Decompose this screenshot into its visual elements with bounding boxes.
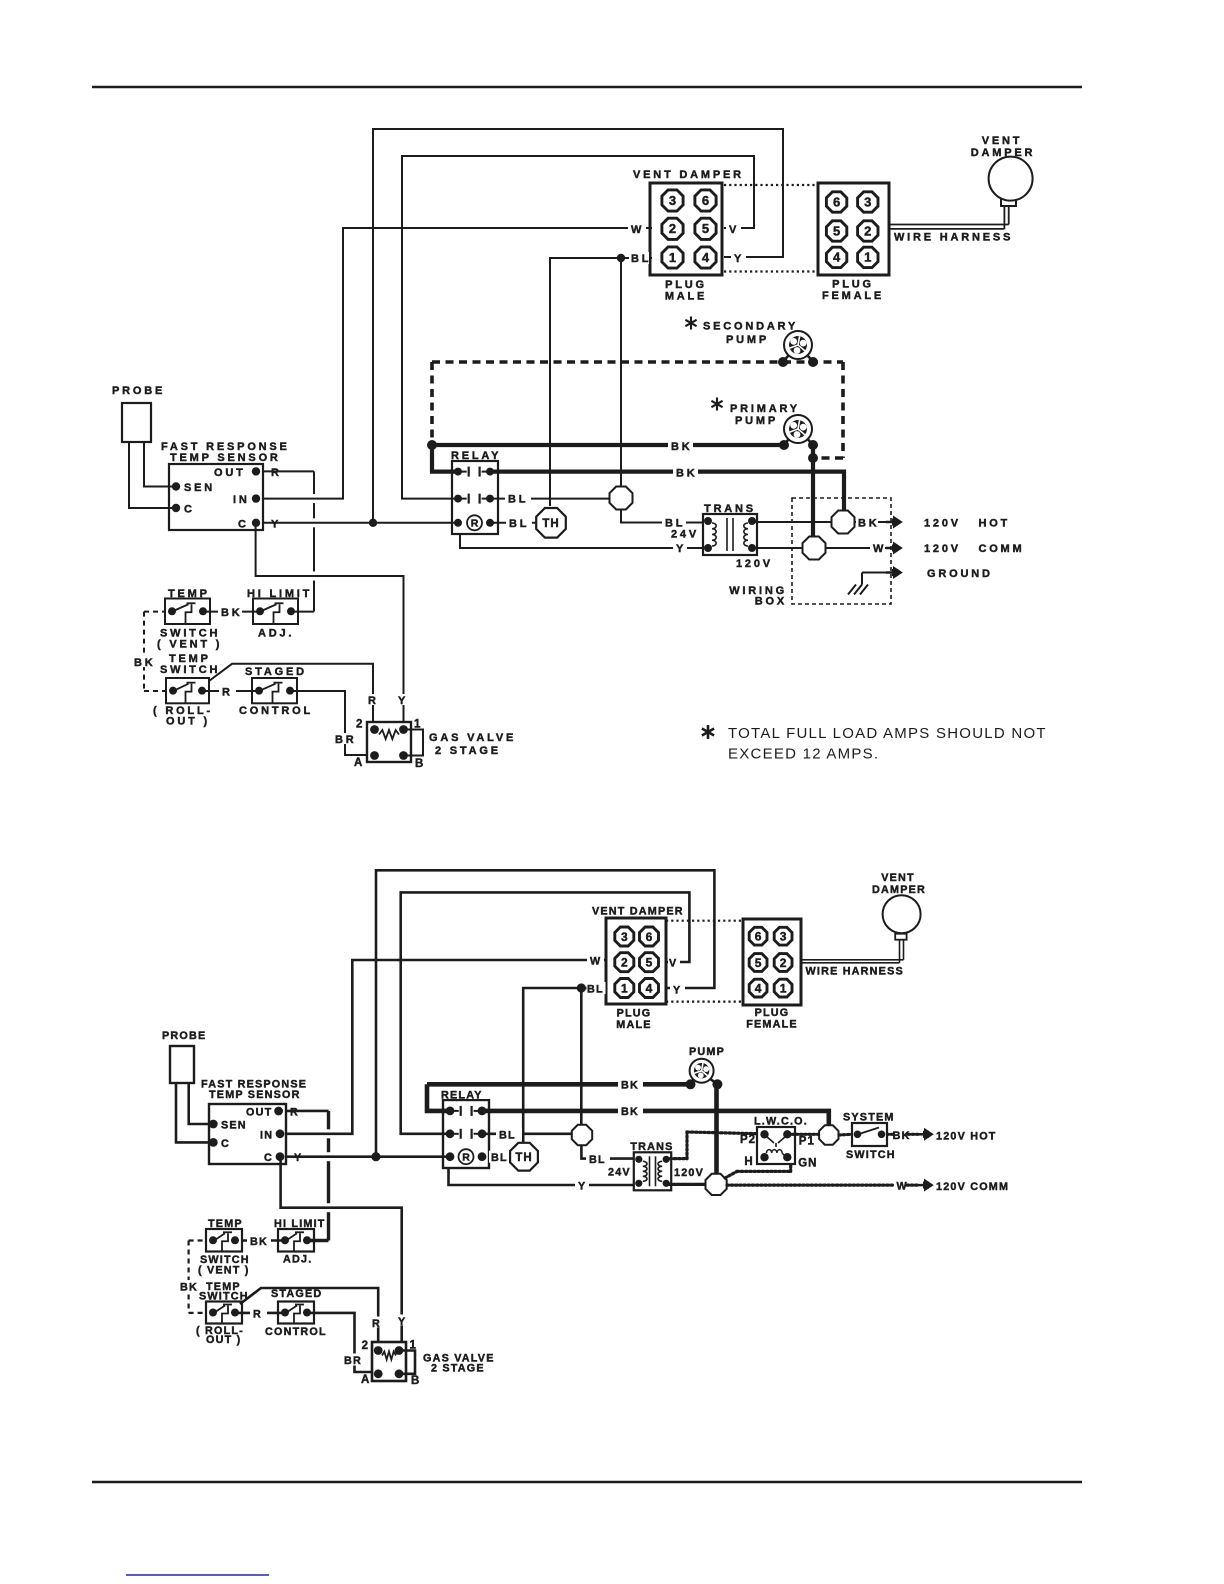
junction dot Y bbox=[369, 519, 377, 527]
wire Y sensor C down to gas valve pin1 bbox=[256, 523, 404, 728]
svg-text:ADJ.: ADJ. bbox=[283, 1254, 312, 1266]
wire W from plug pin2 to sensor IN bbox=[263, 228, 652, 499]
wire BK thick relay row1 to wiring box bbox=[490, 472, 844, 510]
svg-text:C: C bbox=[184, 504, 195, 516]
svg-text:3: 3 bbox=[669, 193, 676, 208]
svg-text:Y: Y bbox=[578, 1181, 586, 1193]
svg-text:CONTROL: CONTROL bbox=[239, 705, 313, 717]
svg-text:RELAY: RELAY bbox=[451, 450, 501, 462]
svg-text:PLUG: PLUG bbox=[832, 279, 874, 291]
svg-text:SECONDARY: SECONDARY bbox=[703, 321, 798, 333]
probe wires bbox=[129, 442, 172, 508]
svg-text:R: R bbox=[290, 1107, 299, 1119]
L plug female pin 5 bbox=[749, 954, 767, 972]
svg-text:120V COMM: 120V COMM bbox=[924, 543, 1025, 555]
wire relay bottom Y to transformer 24V bbox=[460, 533, 703, 548]
svg-text:DAMPER: DAMPER bbox=[971, 147, 1035, 159]
svg-text:MALE: MALE bbox=[665, 291, 707, 303]
L label BL at trans bbox=[586, 1153, 610, 1165]
L label RELAY bbox=[440, 1089, 492, 1100]
svg-text:C: C bbox=[264, 1152, 273, 1164]
svg-text:5: 5 bbox=[833, 223, 840, 238]
label WIRING BOX bbox=[737, 584, 789, 595]
svg-text:B: B bbox=[411, 1375, 420, 1387]
wire nut BK bbox=[832, 511, 855, 534]
wire net-A top loop (plug Y to sensor C/relay Y junction) bbox=[373, 129, 783, 523]
svg-text:PUMP: PUMP bbox=[726, 334, 769, 346]
L field wire 120V COMM bbox=[727, 1183, 895, 1186]
label RELAY bbox=[450, 449, 502, 459]
junction dot BK bbox=[427, 440, 437, 450]
wire R from sensor OUT to HI LIMIT (with hops) bbox=[263, 470, 314, 472]
svg-text:R: R bbox=[462, 1152, 470, 1164]
svg-text:L.W.C.O.: L.W.C.O. bbox=[754, 1116, 808, 1128]
L relay contact row1 bbox=[446, 1107, 455, 1116]
plug female pin 3 bbox=[858, 192, 878, 212]
svg-text:VENT DAMPER: VENT DAMPER bbox=[592, 906, 684, 918]
L wire staged to gas valve A bbox=[310, 1313, 375, 1372]
L hi limit switch bbox=[278, 1229, 314, 1252]
wire ground lead-out bbox=[862, 572, 886, 574]
system switch pins and blade bbox=[854, 1131, 862, 1139]
L wire net-A top loop plug Y bbox=[376, 870, 714, 1156]
svg-text:W: W bbox=[897, 1181, 908, 1193]
relay contact row 1 bbox=[454, 468, 462, 476]
svg-text:W: W bbox=[590, 956, 601, 968]
svg-text:P2: P2 bbox=[740, 1134, 756, 1146]
L plug male pin 6 bbox=[640, 927, 659, 946]
wire R roll-out to staged control bbox=[204, 690, 260, 692]
svg-text:EXCEED 12 AMPS.: EXCEED 12 AMPS. bbox=[728, 746, 879, 763]
label BK wire2 bbox=[673, 466, 698, 478]
L wire nut LWCO bbox=[819, 1125, 838, 1144]
svg-text:VENT: VENT bbox=[982, 135, 1023, 147]
svg-text:H: H bbox=[744, 1156, 753, 1168]
wire harness double line bbox=[889, 224, 1009, 226]
svg-text:2: 2 bbox=[669, 221, 676, 236]
svg-text:4: 4 bbox=[833, 250, 841, 265]
L sensor box bbox=[209, 1104, 286, 1164]
svg-text:120V: 120V bbox=[674, 1167, 704, 1179]
svg-text:120V HOT: 120V HOT bbox=[924, 518, 1010, 530]
wire BL wire-nut to transformer 24V bbox=[621, 510, 703, 523]
plug female pin 2 bbox=[858, 221, 878, 241]
fast response temp sensor box bbox=[169, 464, 263, 530]
svg-text:IN: IN bbox=[233, 494, 250, 506]
svg-text:4: 4 bbox=[755, 981, 762, 995]
svg-text:BK: BK bbox=[134, 657, 156, 669]
L probe wires bbox=[176, 1083, 209, 1142]
label BL row2 bbox=[505, 492, 531, 504]
wire BK vent switch to hi limit bbox=[204, 611, 259, 613]
sensor pin C bottom bbox=[252, 519, 260, 527]
asterisk primary bbox=[716, 398, 718, 411]
arrow 120V HOT bbox=[886, 521, 894, 524]
svg-text:PLUG: PLUG bbox=[755, 1007, 790, 1019]
svg-text:BR: BR bbox=[344, 1355, 362, 1367]
L temp switch (roll-out) bbox=[206, 1302, 242, 1324]
relay contact row 2 bbox=[454, 495, 462, 503]
dashed wire to temp switch vent bbox=[144, 611, 166, 613]
svg-text:VENT DAMPER: VENT DAMPER bbox=[633, 169, 744, 181]
svg-text:BK: BK bbox=[621, 1080, 639, 1092]
L label BK dashed bbox=[178, 1280, 201, 1291]
svg-text:Y: Y bbox=[734, 253, 744, 265]
svg-text:SWITCH: SWITCH bbox=[846, 1149, 896, 1161]
L arrow HOT bbox=[917, 1133, 925, 1136]
L field wire nut to GN bbox=[725, 1171, 737, 1178]
L wire W plug to sensor IN bbox=[286, 960, 606, 1134]
svg-text:BK: BK bbox=[221, 607, 243, 619]
L wire Y sensor C to relay R bbox=[286, 1155, 450, 1158]
relay box bbox=[452, 461, 498, 534]
svg-text:Y: Y bbox=[294, 1152, 302, 1164]
sensor pin IN bbox=[252, 494, 260, 502]
svg-text:BK: BK bbox=[180, 1282, 198, 1294]
LWCO coil bbox=[767, 1150, 786, 1156]
svg-text:2 STAGE: 2 STAGE bbox=[435, 745, 501, 757]
svg-text:OUT ): OUT ) bbox=[166, 716, 210, 728]
svg-text:PUMP: PUMP bbox=[689, 1046, 725, 1058]
gas valve 1-B jumper bbox=[404, 730, 424, 756]
wire BK thick from junction to primary pump bbox=[432, 443, 784, 447]
svg-text:SEN: SEN bbox=[184, 482, 215, 494]
wire relay row2 BL to wire nut bbox=[490, 498, 609, 500]
wire staged control to gas valve A bbox=[290, 691, 370, 755]
wire BL from plug pin1 down to TH and wire nut bbox=[550, 258, 652, 506]
LWCO float symbol bbox=[766, 1136, 786, 1147]
L arrow COMM bbox=[917, 1184, 925, 1187]
svg-text:BL: BL bbox=[509, 518, 529, 530]
gas valve coil zigzag bbox=[379, 730, 399, 739]
temp switch (vent) bbox=[165, 599, 210, 625]
svg-text:( VENT ): ( VENT ) bbox=[198, 1265, 250, 1277]
svg-text:R: R bbox=[253, 1308, 262, 1320]
vent damper plug male box bbox=[650, 183, 722, 275]
plug female pin 1 bbox=[858, 247, 878, 267]
label W at wiring box bbox=[870, 542, 885, 554]
L field wire LWCO P1 to wire nut bbox=[792, 1133, 819, 1136]
wire net-B V loop (plug V to relay row2) bbox=[402, 156, 754, 499]
label R gas valve bbox=[365, 694, 381, 705]
wire relay R pin to TH2 bbox=[490, 522, 537, 524]
wire transformer 120V common to wire nut W bbox=[753, 547, 803, 549]
svg-text:TEMP SENSOR: TEMP SENSOR bbox=[170, 452, 281, 464]
svg-text:4: 4 bbox=[702, 250, 710, 265]
relay R row 3 bbox=[454, 519, 462, 527]
svg-text:1: 1 bbox=[669, 250, 676, 265]
L junction dots pump legs bbox=[686, 1079, 696, 1089]
dashed pump circuit box bbox=[432, 360, 843, 364]
svg-text:TRANS: TRANS bbox=[630, 1141, 673, 1153]
svg-text:120V: 120V bbox=[736, 558, 773, 570]
L wire harness double line bbox=[801, 959, 904, 961]
svg-text:( VENT ): ( VENT ) bbox=[157, 639, 222, 651]
LWCO pins bbox=[760, 1130, 768, 1138]
svg-text:24V: 24V bbox=[608, 1167, 631, 1179]
svg-text:BL: BL bbox=[631, 253, 651, 265]
svg-text:BOX: BOX bbox=[755, 596, 787, 608]
svg-text:C: C bbox=[238, 518, 249, 530]
L wire BL wire-nut to transformer bbox=[581, 1146, 634, 1159]
probe box bbox=[122, 403, 151, 442]
label BL row3 bbox=[506, 516, 532, 528]
L label Y at trans bbox=[575, 1179, 589, 1191]
L wire nut BL bbox=[572, 1125, 592, 1145]
svg-text:BK: BK bbox=[858, 518, 880, 530]
svg-text:BK: BK bbox=[671, 441, 693, 453]
L wire R OUT to HI LIMIT (hops) bbox=[286, 1110, 329, 1113]
svg-text:2: 2 bbox=[362, 1340, 369, 1352]
secondary pump bbox=[783, 353, 791, 362]
L wire Y sensor C down to gas valve pin1 bbox=[281, 1157, 402, 1350]
plug male pin 5 bbox=[695, 218, 716, 239]
hi limit switch bbox=[253, 599, 298, 625]
svg-text:BL: BL bbox=[589, 1154, 606, 1166]
svg-text:R: R bbox=[222, 687, 233, 699]
L label Y gas valve bbox=[395, 1315, 411, 1326]
L plug male pin 4 bbox=[640, 979, 659, 998]
label BL pin bbox=[629, 252, 649, 264]
L diagonal wire to gas valve R bbox=[240, 1288, 378, 1350]
L junction dot BL bbox=[577, 983, 586, 992]
L wire trans 120V to wire nut bbox=[666, 1183, 706, 1186]
svg-text:OUT: OUT bbox=[214, 467, 246, 479]
svg-text:WIRE HARNESS: WIRE HARNESS bbox=[894, 232, 1013, 244]
svg-text:Y: Y bbox=[271, 518, 281, 530]
arrow GROUND bbox=[886, 571, 894, 574]
svg-text:V: V bbox=[669, 958, 677, 970]
L label V pin bbox=[668, 956, 680, 968]
staged control switch bbox=[252, 678, 297, 703]
label Y at transformer bbox=[673, 542, 687, 553]
label R bbox=[219, 685, 236, 697]
L label BR bbox=[341, 1354, 363, 1366]
L thick corner to relay row1 bbox=[427, 1084, 450, 1111]
wire thick junction down to relay row1 bbox=[432, 445, 458, 472]
wire nut BL upper bbox=[610, 487, 633, 510]
L dotted connector top bbox=[666, 920, 743, 922]
L plug female pin 3 bbox=[774, 927, 792, 945]
label Y gas valve bbox=[395, 694, 411, 705]
gas valve box bbox=[367, 722, 411, 762]
svg-text:TOTAL FULL LOAD AMPS SHOULD NO: TOTAL FULL LOAD AMPS SHOULD NOT bbox=[728, 725, 1047, 742]
svg-text:R: R bbox=[271, 467, 282, 479]
L vent damper circle bbox=[883, 895, 921, 933]
svg-text:6: 6 bbox=[646, 930, 653, 944]
svg-text:BL: BL bbox=[587, 984, 604, 996]
asterisk secondary bbox=[690, 317, 692, 330]
temp switch (roll-out) bbox=[166, 678, 209, 703]
gas valve pins bbox=[370, 725, 379, 734]
L sensor pin IN bbox=[276, 1129, 285, 1138]
svg-text:OUT ): OUT ) bbox=[206, 1334, 241, 1346]
svg-text:BK: BK bbox=[621, 1106, 639, 1118]
svg-text:FEMALE: FEMALE bbox=[822, 290, 884, 302]
L thick BK pump wire bbox=[427, 1082, 691, 1087]
svg-text:GN: GN bbox=[798, 1158, 817, 1170]
L transformer bbox=[634, 1152, 671, 1190]
vent damper actuator stub bbox=[1001, 199, 1016, 206]
L staged control bbox=[278, 1302, 314, 1324]
sensor pin OUT bbox=[252, 467, 260, 475]
L plug male pin 1 bbox=[615, 979, 634, 998]
L gas valve 1-B jumper bbox=[399, 1351, 415, 1374]
svg-text:Y: Y bbox=[398, 1316, 406, 1328]
thermostat terminal TH bbox=[536, 508, 566, 538]
L thick pump leg to wire nut bbox=[714, 1084, 719, 1174]
junction dot BL bbox=[617, 254, 625, 262]
svg-text:SWITCH: SWITCH bbox=[160, 664, 220, 676]
blue footer link line bbox=[126, 1574, 269, 1576]
L gas valve pins bbox=[374, 1346, 383, 1355]
svg-text:MALE: MALE bbox=[616, 1019, 651, 1031]
L vent damper stub bbox=[895, 934, 906, 940]
svg-text:TEMP: TEMP bbox=[208, 1218, 243, 1230]
L wire nut bottom bbox=[706, 1174, 727, 1195]
dotted connector top bbox=[724, 184, 818, 186]
svg-text:6: 6 bbox=[833, 194, 840, 209]
svg-text:2: 2 bbox=[356, 719, 363, 731]
L plug female box bbox=[743, 919, 801, 1005]
L plug male pin 2 bbox=[615, 953, 634, 972]
svg-text:C: C bbox=[221, 1138, 230, 1150]
L wire BL plug pin1 bbox=[523, 988, 606, 1142]
label BK dashed bbox=[132, 656, 155, 667]
svg-text:A: A bbox=[361, 1374, 370, 1386]
svg-text:2: 2 bbox=[780, 956, 787, 970]
svg-text:SWITCH: SWITCH bbox=[199, 1291, 249, 1303]
L label BL row3 bbox=[489, 1151, 508, 1163]
plug male pin 6 bbox=[695, 190, 716, 211]
svg-text:TEMP: TEMP bbox=[168, 588, 210, 600]
L plug female pin 1 bbox=[774, 979, 792, 997]
label V pin bbox=[726, 222, 741, 234]
svg-text:BK: BK bbox=[676, 468, 698, 480]
note asterisk bbox=[707, 725, 710, 739]
svg-text:DAMPER: DAMPER bbox=[872, 884, 926, 896]
L relay contact row2 bbox=[446, 1129, 455, 1138]
svg-text:HI LIMIT: HI LIMIT bbox=[274, 1218, 326, 1230]
L plug male pin 3 bbox=[615, 927, 634, 946]
L label BK relay wire bbox=[618, 1105, 643, 1117]
L label R bbox=[250, 1307, 267, 1319]
svg-text:STAGED: STAGED bbox=[245, 666, 307, 678]
wire transformer 120V hot to wire nut BK bbox=[753, 521, 832, 523]
wire thick pump leg down to wire nut W bbox=[811, 445, 815, 536]
L wire BL vertical to wire nut bbox=[580, 988, 583, 1125]
L label BL row2 bbox=[496, 1128, 522, 1140]
L junction dot Y bbox=[371, 1152, 380, 1161]
svg-text:TRANS: TRANS bbox=[704, 503, 756, 515]
L relay R row3 bbox=[446, 1152, 455, 1161]
svg-text:Y: Y bbox=[676, 543, 686, 555]
svg-text:1: 1 bbox=[780, 981, 787, 995]
bottom rule bbox=[92, 1481, 1082, 1483]
plug male pin 1 bbox=[662, 247, 683, 268]
wire Y from sensor C to relay R pin bbox=[263, 522, 458, 524]
svg-text:120V COMM: 120V COMM bbox=[936, 1181, 1009, 1193]
L plug female pin 4 bbox=[749, 979, 767, 997]
svg-text:TH: TH bbox=[515, 1152, 532, 1164]
svg-text:W: W bbox=[631, 224, 644, 236]
L field wire trans to LWCO P2 bbox=[666, 1157, 687, 1160]
svg-text:1: 1 bbox=[864, 250, 871, 265]
svg-text:BK: BK bbox=[250, 1236, 268, 1248]
svg-text:R: R bbox=[368, 695, 379, 707]
vent damper actuator circle bbox=[989, 157, 1033, 201]
svg-text:P1: P1 bbox=[799, 1136, 815, 1148]
L relay box bbox=[443, 1100, 489, 1168]
L sensor pin C bottom bbox=[276, 1152, 285, 1161]
svg-text:3: 3 bbox=[780, 930, 787, 944]
label W pin bbox=[628, 222, 646, 234]
svg-text:SYSTEM: SYSTEM bbox=[843, 1112, 895, 1124]
svg-text:WIRE HARNESS: WIRE HARNESS bbox=[806, 966, 904, 978]
L plug male pin 5 bbox=[640, 953, 659, 972]
plug female pin 4 bbox=[826, 247, 846, 267]
junction dots pump legs bbox=[779, 440, 789, 450]
system switch wavy leads bbox=[839, 1133, 852, 1137]
svg-text:CONTROL: CONTROL bbox=[265, 1326, 327, 1338]
svg-text:HI LIMIT: HI LIMIT bbox=[247, 588, 312, 600]
label BR bbox=[332, 733, 354, 744]
wiring box dashed bbox=[792, 498, 891, 604]
L wire relay bottom Y to transformer bbox=[449, 1168, 635, 1185]
L probe box bbox=[170, 1046, 194, 1083]
L label BK pump wire bbox=[618, 1078, 643, 1090]
L wire R to staged bbox=[236, 1312, 284, 1315]
sensor pin C left bbox=[172, 504, 180, 512]
vent damper plug female box bbox=[818, 183, 889, 275]
label BL 24V at transformer bbox=[662, 516, 686, 528]
svg-text:GAS VALVE: GAS VALVE bbox=[429, 732, 516, 744]
svg-text:2: 2 bbox=[864, 223, 871, 238]
L thick BK relay row1 to LWCO nut bbox=[482, 1111, 829, 1126]
L dashed wires temp switch bbox=[189, 1239, 206, 1241]
label Y pin bbox=[731, 252, 746, 264]
label BK bbox=[218, 606, 242, 618]
svg-text:PLUG: PLUG bbox=[617, 1008, 652, 1020]
L gas valve box bbox=[372, 1342, 406, 1381]
plug male pin 4 bbox=[695, 247, 716, 268]
svg-text:PLUG: PLUG bbox=[665, 279, 707, 291]
svg-text:ADJ.: ADJ. bbox=[258, 628, 294, 640]
L.W.C.O. box bbox=[757, 1127, 795, 1164]
L label Y pin bbox=[670, 983, 685, 995]
wire BL vertical plug pin1 to wire nut bbox=[620, 258, 622, 486]
svg-text:1: 1 bbox=[410, 1340, 417, 1352]
arrow 120V COMM bbox=[886, 547, 894, 550]
plug female pin 5 bbox=[826, 221, 846, 241]
label BK wire1 bbox=[668, 439, 693, 451]
L wire relay row2 BL to wire nut bbox=[482, 1133, 572, 1136]
svg-text:5: 5 bbox=[755, 956, 762, 970]
ground symbol bbox=[861, 573, 863, 585]
svg-text:5: 5 bbox=[646, 956, 653, 970]
L pump bbox=[691, 1077, 696, 1084]
L plug female pin 2 bbox=[774, 954, 792, 972]
svg-text:6: 6 bbox=[702, 193, 709, 208]
svg-text:BR: BR bbox=[335, 734, 357, 746]
plug female pin 6 bbox=[826, 192, 846, 212]
svg-text:W: W bbox=[873, 543, 886, 555]
wire 120V COMM lead-out bbox=[826, 547, 886, 549]
svg-text:5: 5 bbox=[702, 221, 709, 236]
svg-text:R: R bbox=[372, 1318, 381, 1330]
svg-text:BL: BL bbox=[499, 1129, 516, 1141]
svg-text:STAGED: STAGED bbox=[271, 1288, 322, 1300]
